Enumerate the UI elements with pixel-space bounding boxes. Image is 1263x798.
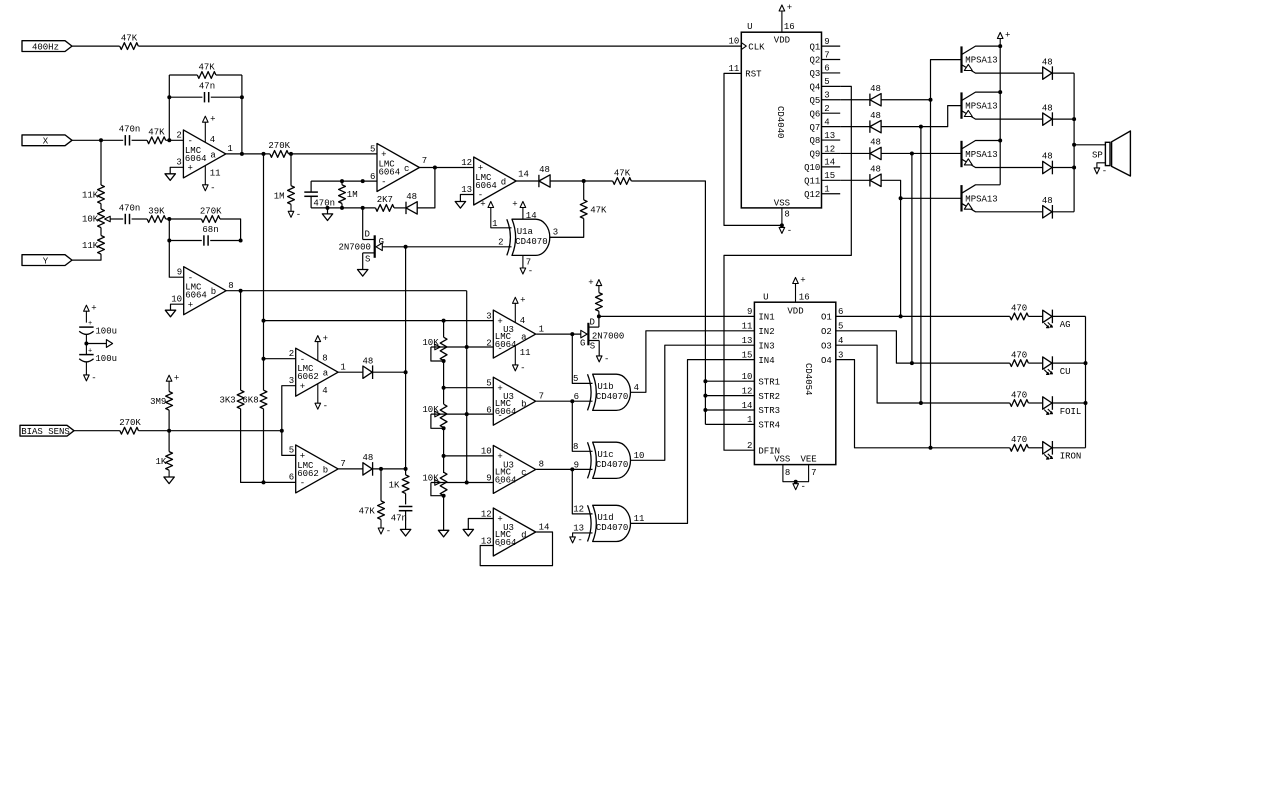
svg-text:+: +	[480, 200, 485, 210]
wire 47n cap row right	[211, 96, 242, 98]
wire U3a output to gate	[536, 333, 581, 335]
svg-text:2N7000: 2N7000	[338, 243, 370, 253]
wire STR2 row	[705, 395, 754, 397]
svg-text:+: +	[497, 384, 502, 394]
svg-text:47K: 47K	[614, 168, 631, 178]
resistor 47K (6062b low)	[380, 469, 382, 501]
svg-text:+: +	[174, 373, 179, 383]
svg-text:12: 12	[824, 144, 835, 154]
svg-text:8: 8	[228, 281, 233, 291]
resistor 47K (to STR)	[613, 178, 632, 185]
svg-text:10: 10	[742, 372, 753, 382]
wire op-amp b output	[226, 290, 467, 292]
svg-text:+: +	[588, 278, 593, 288]
clock input symbol	[741, 43, 746, 50]
ground (op-amp a pin3)	[165, 174, 175, 181]
wire Q2 drain to CD4054 IN1	[599, 315, 755, 317]
svg-text:3M9: 3M9	[150, 397, 166, 407]
svg-text:47n: 47n	[391, 514, 407, 524]
op-amp U3a LMC6064	[493, 310, 535, 358]
wire BIAS to 270K	[74, 430, 120, 432]
svg-text:3: 3	[176, 158, 181, 168]
resistor 47K (X input)	[147, 137, 166, 144]
wiper 10K #1	[435, 344, 441, 350]
svg-text:+: +	[188, 300, 193, 310]
node 68n right	[239, 239, 243, 243]
svg-text:8: 8	[322, 354, 327, 364]
wire feedback right vertical	[241, 75, 243, 154]
wire op-amp a output	[225, 153, 270, 155]
svg-text:STR4: STR4	[758, 421, 780, 431]
resistor 1K (ramp)	[405, 469, 407, 475]
wire 68n row left	[168, 219, 170, 241]
svg-text:IRON: IRON	[1060, 452, 1082, 462]
wire RST to VSS	[724, 73, 782, 225]
resistor 270K (BIAS SENS)	[120, 427, 139, 434]
wire STR4 row	[705, 423, 754, 425]
wire 270K to node	[139, 430, 170, 432]
svg-text:8: 8	[573, 442, 578, 452]
resistor 470 (FOIL)	[1010, 400, 1029, 407]
svg-text:3: 3	[486, 311, 491, 321]
svg-text:U1d: U1d	[597, 513, 613, 523]
arrow negative (U1d pin13)	[570, 537, 576, 543]
O1 output stub	[836, 315, 855, 317]
wire 2K7 to diode	[394, 207, 406, 209]
svg-text:a: a	[210, 150, 216, 160]
svg-text:1K: 1K	[389, 480, 400, 490]
wire Q4 to DFIN	[724, 86, 851, 450]
svg-text:1: 1	[539, 324, 544, 334]
O2 route to CU row	[836, 331, 1010, 363]
resistor 39K (Y input)	[147, 216, 166, 223]
wire G rail	[405, 247, 407, 469]
node 47K junction	[582, 179, 586, 183]
svg-text:470n: 470n	[313, 199, 335, 209]
svg-text:470n: 470n	[119, 203, 141, 213]
svg-text:Q12: Q12	[804, 190, 820, 200]
capacitor 68n (op-amp b feedback)	[203, 235, 205, 245]
node 6062a pin2	[262, 357, 266, 361]
diode 48 (emitter 1)	[1043, 67, 1052, 79]
svg-text:U: U	[763, 293, 768, 303]
wire U1c output to IN3	[630, 345, 754, 460]
wiper 10K #2	[435, 411, 441, 417]
resistor 470 (IRON)	[1010, 444, 1029, 451]
svg-text:1K: 1K	[155, 457, 166, 467]
xor gate U1b CD4070	[588, 374, 592, 410]
svg-text:b: b	[521, 400, 526, 410]
svg-text:48: 48	[1042, 152, 1053, 162]
svg-text:8: 8	[539, 460, 544, 470]
pin Q10 stub	[822, 166, 841, 168]
wire 3K3 rail	[240, 291, 242, 391]
svg-text:14: 14	[539, 522, 550, 532]
svg-text:16: 16	[799, 293, 810, 303]
LED AG	[1043, 310, 1052, 322]
wire collector rail	[999, 46, 1001, 185]
svg-text:-: -	[210, 183, 215, 193]
svg-text:470n: 470n	[119, 125, 141, 135]
svg-text:14: 14	[518, 170, 529, 180]
svg-text:2K7: 2K7	[377, 195, 393, 205]
wire 470 to LED AG	[1028, 315, 1042, 317]
svg-text:MPSA13: MPSA13	[965, 194, 997, 204]
svg-text:+: +	[300, 382, 305, 392]
svg-text:48: 48	[870, 84, 881, 94]
svg-text:CD4070: CD4070	[596, 523, 628, 533]
wire 47n cap row left	[169, 96, 202, 98]
svg-text:SP: SP	[1092, 151, 1103, 161]
node 1M bottom	[340, 206, 344, 210]
wire d output to diode	[516, 180, 539, 182]
node diode 6062a to rail	[404, 370, 408, 374]
node CU join	[910, 361, 914, 365]
op-amp U3c LMC6064	[493, 445, 535, 493]
wire mid arrow	[86, 343, 106, 345]
pin Q5 stub	[822, 99, 841, 101]
svg-text:1: 1	[227, 144, 232, 154]
wire Q9 diode to base3	[881, 152, 961, 154]
svg-text:Q3: Q3	[809, 69, 820, 79]
wire Q7 down to FOIL row	[920, 127, 922, 403]
svg-text:-: -	[296, 210, 301, 220]
resistor 6K8	[260, 390, 267, 409]
wire pot2 to pin10 row	[443, 428, 445, 473]
svg-text:2: 2	[176, 131, 181, 141]
svg-text:7: 7	[340, 459, 345, 469]
svg-text:IN4: IN4	[758, 356, 774, 366]
svg-text:5: 5	[824, 77, 829, 87]
node AG join	[899, 314, 903, 318]
wire STR3 row	[705, 409, 754, 411]
resistor 270K (op-amp a output)	[270, 151, 289, 158]
wire wiper3 row to U3c pin9	[431, 482, 493, 484]
svg-text:5: 5	[486, 379, 491, 389]
svg-text:+: +	[210, 114, 215, 124]
node Q11 base4 T	[899, 196, 903, 200]
IC CD4040	[741, 32, 821, 208]
svg-text:S: S	[365, 255, 370, 265]
svg-text:12: 12	[461, 158, 472, 168]
svg-text:100u: 100u	[95, 327, 117, 337]
svg-text:c: c	[404, 164, 409, 174]
svg-text:BIAS SENS: BIAS SENS	[21, 427, 70, 437]
wire wiper1 row to U3a pin2	[431, 346, 493, 348]
svg-text:6: 6	[370, 172, 375, 182]
svg-text:-: -	[91, 373, 96, 383]
svg-text:9: 9	[177, 268, 182, 278]
svg-text:6062: 6062	[297, 469, 319, 479]
input tag Y	[22, 255, 72, 266]
svg-text:7: 7	[422, 156, 427, 166]
svg-text:5: 5	[838, 322, 843, 332]
svg-text:d: d	[521, 531, 526, 541]
ground (pot3)	[438, 530, 448, 537]
wire Q11 to diode	[840, 179, 870, 181]
svg-text:11: 11	[520, 348, 531, 358]
svg-text:6: 6	[574, 392, 579, 402]
node FOIL join	[919, 401, 923, 405]
wire wiper to C470n	[110, 218, 123, 220]
capacitor 47n (ramp)	[405, 494, 407, 505]
arrow positive supply (collector rail)	[999, 39, 1001, 47]
resistor 3M9 (to positive)	[168, 410, 170, 431]
svg-text:11: 11	[728, 64, 739, 74]
pin Q4 stub	[822, 85, 841, 87]
transistor MPSA13 Q4	[960, 92, 962, 118]
svg-text:47K: 47K	[148, 128, 165, 138]
wire down to U1b pin5	[572, 334, 592, 383]
wire 400Hz to R47K	[72, 45, 120, 47]
wire emitter diode 2 to rail	[1052, 118, 1074, 120]
arrow negative supply (decoupling)	[84, 375, 90, 381]
resistor 1K (to ground)	[168, 431, 170, 452]
svg-text:48: 48	[362, 356, 373, 366]
svg-text:8: 8	[784, 209, 789, 219]
resistor 11K (lower)	[98, 236, 105, 255]
xor gate U1c CD4070	[588, 442, 592, 478]
svg-text:+: +	[1005, 31, 1010, 41]
wire pin3 row (U3a +)	[264, 320, 494, 322]
pin Q3 stub	[822, 72, 841, 74]
node Q9 T	[910, 151, 914, 155]
resistor 3K3	[237, 390, 244, 409]
capacitor 470n (X input)	[124, 135, 126, 145]
svg-text:4: 4	[824, 117, 829, 127]
wire U1a pin1 supply	[491, 208, 512, 228]
arrow positive supply (decoupling)	[84, 305, 90, 311]
node 1K top	[404, 467, 408, 471]
power pin 11 arrow (op-amp a)	[204, 166, 206, 185]
svg-text:11K: 11K	[82, 241, 99, 251]
pin Q11 stub	[822, 179, 841, 181]
resistor pull-up (Q2 drain)	[598, 311, 600, 316]
wire speaker rail	[1073, 73, 1075, 212]
svg-text:1: 1	[824, 185, 829, 195]
svg-text:+: +	[520, 296, 525, 306]
svg-text:S: S	[590, 342, 595, 352]
wire emitter diode 4 to rail	[1052, 211, 1074, 213]
svg-text:VEE: VEE	[800, 454, 816, 464]
svg-text:48: 48	[1042, 196, 1053, 206]
capacitor 470n (Y input)	[124, 214, 126, 224]
diode 48 (op-amp c feedback)	[405, 202, 407, 214]
svg-text:U: U	[747, 22, 752, 32]
svg-text:Y: Y	[43, 256, 49, 266]
power pin 4 arrow (op-amp a)	[204, 122, 206, 142]
node D rail top	[361, 179, 365, 183]
node pot1 top	[442, 319, 446, 323]
svg-text:39K: 39K	[148, 206, 165, 216]
svg-text:MPSA13: MPSA13	[965, 56, 997, 66]
svg-text:470: 470	[1011, 435, 1027, 445]
capacitor 100u (upper)	[79, 326, 93, 328]
pin Q1 stub	[822, 45, 841, 47]
pin Q7 stub	[822, 126, 841, 128]
wire 470 to LED CU	[1028, 362, 1042, 364]
wire down to U1d pin12	[572, 469, 592, 514]
op-amp LMC6064 b	[184, 267, 226, 315]
svg-text:7: 7	[526, 257, 531, 267]
svg-text:d: d	[501, 178, 506, 188]
svg-text:IN2: IN2	[758, 327, 774, 337]
svg-text:15: 15	[824, 171, 835, 181]
input tag BIAS SENS	[20, 425, 74, 436]
node STR2	[703, 394, 707, 398]
svg-text:5: 5	[370, 145, 375, 155]
input tag 400Hz	[22, 41, 72, 52]
node op-amp b output	[239, 289, 243, 293]
svg-text:13: 13	[742, 336, 753, 346]
node op-amp a inverting input	[167, 138, 171, 142]
power pin 8 arrow (6062a)	[317, 341, 319, 360]
svg-text:6062: 6062	[297, 372, 319, 382]
node 68n left	[167, 239, 171, 243]
transistor 2N7000 Q2	[598, 316, 600, 327]
node D rail bottom row	[361, 206, 365, 210]
svg-text:MPSA13: MPSA13	[965, 150, 997, 160]
svg-text:-: -	[381, 177, 386, 187]
diode 48 (emitter 2)	[1043, 113, 1052, 125]
wire b-output rail vertical	[466, 291, 468, 483]
svg-text:3: 3	[553, 227, 558, 237]
svg-text:IN3: IN3	[758, 341, 774, 351]
svg-text:CD4054: CD4054	[803, 363, 813, 395]
transistor 2N7000 Q1	[362, 208, 364, 240]
svg-text:6K8: 6K8	[242, 396, 258, 406]
svg-text:7: 7	[824, 50, 829, 60]
svg-text:12: 12	[481, 509, 492, 519]
svg-text:CU: CU	[1060, 367, 1071, 377]
svg-text:-: -	[528, 267, 533, 277]
svg-text:6064: 6064	[475, 181, 497, 191]
node 1M cap top	[340, 179, 344, 183]
svg-text:48: 48	[1042, 103, 1053, 113]
node collector 2	[998, 90, 1002, 94]
svg-text:47n: 47n	[199, 82, 215, 92]
svg-text:13: 13	[824, 131, 835, 141]
svg-text:270K: 270K	[268, 141, 290, 151]
wire emitter diode 1 to rail	[1052, 72, 1074, 74]
wire Y tag to divider	[72, 254, 101, 260]
op-amp LMC6064 a	[183, 130, 225, 178]
LED CU	[1043, 357, 1052, 369]
wire 470 to LED FOIL	[1028, 402, 1042, 404]
svg-text:48: 48	[870, 165, 881, 175]
node U3a output	[570, 332, 574, 336]
svg-text:47K: 47K	[121, 33, 138, 43]
wire R47K to op-amp a pin2	[166, 139, 184, 141]
node X junction	[99, 138, 103, 142]
node 6062 non-inverting join	[280, 429, 284, 433]
wire pin10 row (U3c +)	[444, 455, 494, 457]
svg-text:b: b	[211, 287, 216, 297]
svg-text:VDD: VDD	[787, 306, 803, 316]
svg-text:+: +	[787, 3, 792, 13]
svg-text:470: 470	[1011, 390, 1027, 400]
svg-text:470: 470	[1011, 304, 1027, 314]
svg-text:14: 14	[742, 401, 753, 411]
svg-text:IN1: IN1	[758, 313, 774, 323]
wire 270K to op-amp c pin5	[289, 153, 378, 155]
svg-text:12: 12	[742, 386, 753, 396]
svg-text:48: 48	[406, 192, 417, 202]
ground (op-amp d pin13)	[455, 202, 465, 209]
svg-text:+: +	[88, 320, 92, 328]
xor gate U1a CD4070	[507, 219, 511, 255]
svg-text:Q8: Q8	[809, 136, 820, 146]
svg-text:+: +	[497, 317, 502, 327]
svg-text:G: G	[379, 237, 384, 247]
diode 48 (emitter 4)	[1043, 206, 1052, 218]
wire diode to G-rail	[373, 371, 406, 373]
wire LED FOIL to rail	[1052, 402, 1085, 404]
wire 47K down to U1a output	[550, 219, 584, 238]
svg-text:CD4070: CD4070	[515, 237, 547, 247]
node wiper2 b-rail	[465, 412, 469, 416]
node FOIL rail	[1084, 401, 1088, 405]
arrow positive (Q2 drain resistor)	[596, 280, 602, 286]
svg-text:STR3: STR3	[758, 406, 780, 416]
svg-text:3: 3	[289, 376, 294, 386]
svg-text:6: 6	[289, 473, 294, 483]
wire 6062b output to diode	[338, 468, 363, 470]
node emitter 2 join	[1072, 117, 1076, 121]
svg-text:6064: 6064	[495, 340, 517, 350]
svg-text:3K3: 3K3	[219, 396, 235, 406]
diode 48 (Q5)	[869, 94, 871, 106]
power pin 14 (U1a)	[522, 208, 524, 220]
svg-text:10: 10	[171, 295, 182, 305]
svg-text:STR2: STR2	[758, 392, 780, 402]
svg-text:b: b	[323, 465, 328, 475]
wire gate Q1 to U1a pin2	[382, 246, 511, 248]
wire 6K8 rail	[263, 154, 265, 390]
svg-text:7: 7	[539, 392, 544, 402]
potentiometer 10K (divider)	[100, 204, 102, 209]
svg-text:8: 8	[785, 468, 790, 478]
ground (BIAS 1K)	[164, 477, 174, 484]
node pin10 row	[442, 454, 446, 458]
arrow negative (Q2 source)	[596, 356, 602, 362]
wire Q5 to diode	[840, 99, 870, 101]
wire 6K8 to pin6 row	[263, 409, 265, 483]
node 6K8 branch	[262, 152, 266, 156]
wire to speaker	[1074, 144, 1105, 146]
op-amp U3d LMC6064	[493, 508, 535, 556]
transistor MPSA13 Q5	[960, 141, 962, 167]
arrow negative supply (47K)	[378, 528, 384, 534]
svg-text:Q7: Q7	[809, 123, 820, 133]
wire op-amp c output	[419, 167, 473, 169]
svg-text:16: 16	[784, 22, 795, 32]
svg-text:CLK: CLK	[748, 42, 765, 52]
svg-text:4: 4	[634, 383, 639, 393]
svg-text:9: 9	[747, 307, 752, 317]
wire Q11 diode to base4	[881, 180, 961, 198]
svg-text:Q5: Q5	[809, 96, 820, 106]
speaker SP	[1105, 142, 1110, 165]
diode 48 (Q11)	[869, 174, 871, 186]
wire U1b output to IN2	[630, 331, 754, 393]
node 1M branch	[289, 152, 293, 156]
power VSS VEE (CD4054)	[783, 465, 809, 482]
wire Q9 down to CU row	[911, 153, 913, 363]
svg-text:4: 4	[838, 336, 843, 346]
capacitor 100u (lower)	[85, 344, 87, 355]
op-amp U3b LMC6064	[493, 377, 535, 425]
